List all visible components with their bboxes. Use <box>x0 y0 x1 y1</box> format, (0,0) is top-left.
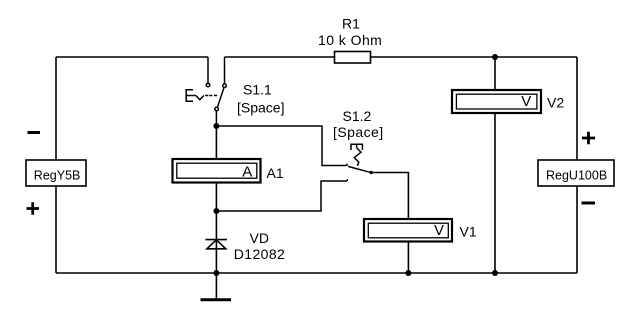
wire A1 top stub <box>215 126 217 159</box>
node junction dot V2 on bottom rail <box>492 270 498 276</box>
diode VD <box>206 240 228 249</box>
S1.2 pivot dot <box>370 171 373 174</box>
S1.2 spring zigzag <box>354 148 361 166</box>
svg-text:[Space]: [Space] <box>333 124 384 140</box>
switch S1.2 <box>348 144 370 172</box>
label minus (left source) <box>28 131 41 134</box>
svg-text:[Space]: [Space] <box>237 100 284 116</box>
S1.1 key symbol E <box>186 90 193 102</box>
svg-text:10 k Ohm: 10 k Ohm <box>318 32 382 48</box>
ground <box>201 273 232 300</box>
battery box RegU100B <box>538 160 614 186</box>
svg-text:R1: R1 <box>342 16 360 32</box>
svg-text:A: A <box>242 164 252 181</box>
wire left vertical lower <box>55 186 57 273</box>
S1.1 actuator dashes and chevron <box>193 96 217 100</box>
voltmeter V1 <box>364 219 452 242</box>
label minus (right source) <box>582 202 596 205</box>
wire top rail left segment <box>56 56 208 58</box>
ammeter A1 <box>173 159 261 183</box>
wire left vertical upper <box>55 57 57 160</box>
node junction dot at S1.1 output <box>213 123 219 129</box>
wire V1 bottom stub <box>407 242 409 273</box>
svg-text:D12082: D12082 <box>234 246 285 262</box>
switch S1.1 <box>186 57 226 126</box>
node junction dot V2 on top rail <box>492 54 498 60</box>
resistor R1 <box>318 16 382 63</box>
S1.1 right contact drop <box>224 57 226 84</box>
svg-text:V1: V1 <box>460 223 477 239</box>
svg-text:V: V <box>434 222 444 239</box>
node junction dot V1 on bottom rail <box>405 270 411 276</box>
wire A1 bottom stub to lower node <box>215 183 217 211</box>
wire V2 top stub <box>494 57 496 90</box>
svg-text:V: V <box>521 93 531 110</box>
node junction dot below A1 <box>213 208 219 214</box>
wire bottom rail <box>56 272 577 274</box>
svg-text:S1.2: S1.2 <box>343 108 372 124</box>
wire V2 bottom stub <box>494 113 496 273</box>
wire diode branch vertical <box>215 211 217 273</box>
wire right vertical upper <box>576 57 578 160</box>
svg-text:S1.1: S1.1 <box>243 81 272 97</box>
battery box RegY5B <box>26 160 86 186</box>
svg-text:A1: A1 <box>267 165 284 181</box>
S1.1 bottom stub <box>215 111 217 126</box>
wire top rail middle segment <box>225 56 335 58</box>
svg-text:V2: V2 <box>547 94 564 110</box>
svg-text:RegU100B: RegU100B <box>546 169 607 183</box>
label plus (right source) <box>582 132 595 145</box>
S1.1 blade <box>217 88 224 108</box>
node junction dot diode on bottom rail <box>213 270 219 276</box>
wire S1.2 common to V1 <box>373 173 409 219</box>
wire top rail right segment <box>371 56 578 58</box>
label plus (left source) <box>27 202 40 214</box>
S1.2 blade <box>348 166 370 172</box>
S1.1 left contact drop <box>207 57 209 83</box>
svg-text:RegY5B: RegY5B <box>34 169 81 183</box>
wire right vertical lower <box>576 186 578 273</box>
voltmeter V2 <box>452 90 541 113</box>
svg-text:VD: VD <box>250 230 269 246</box>
S1.2 key cap symbol <box>351 144 362 150</box>
wire from S1.1 node to S1.2 upper throw <box>216 126 347 166</box>
wire from lower node to S1.2 lower throw <box>216 179 347 211</box>
